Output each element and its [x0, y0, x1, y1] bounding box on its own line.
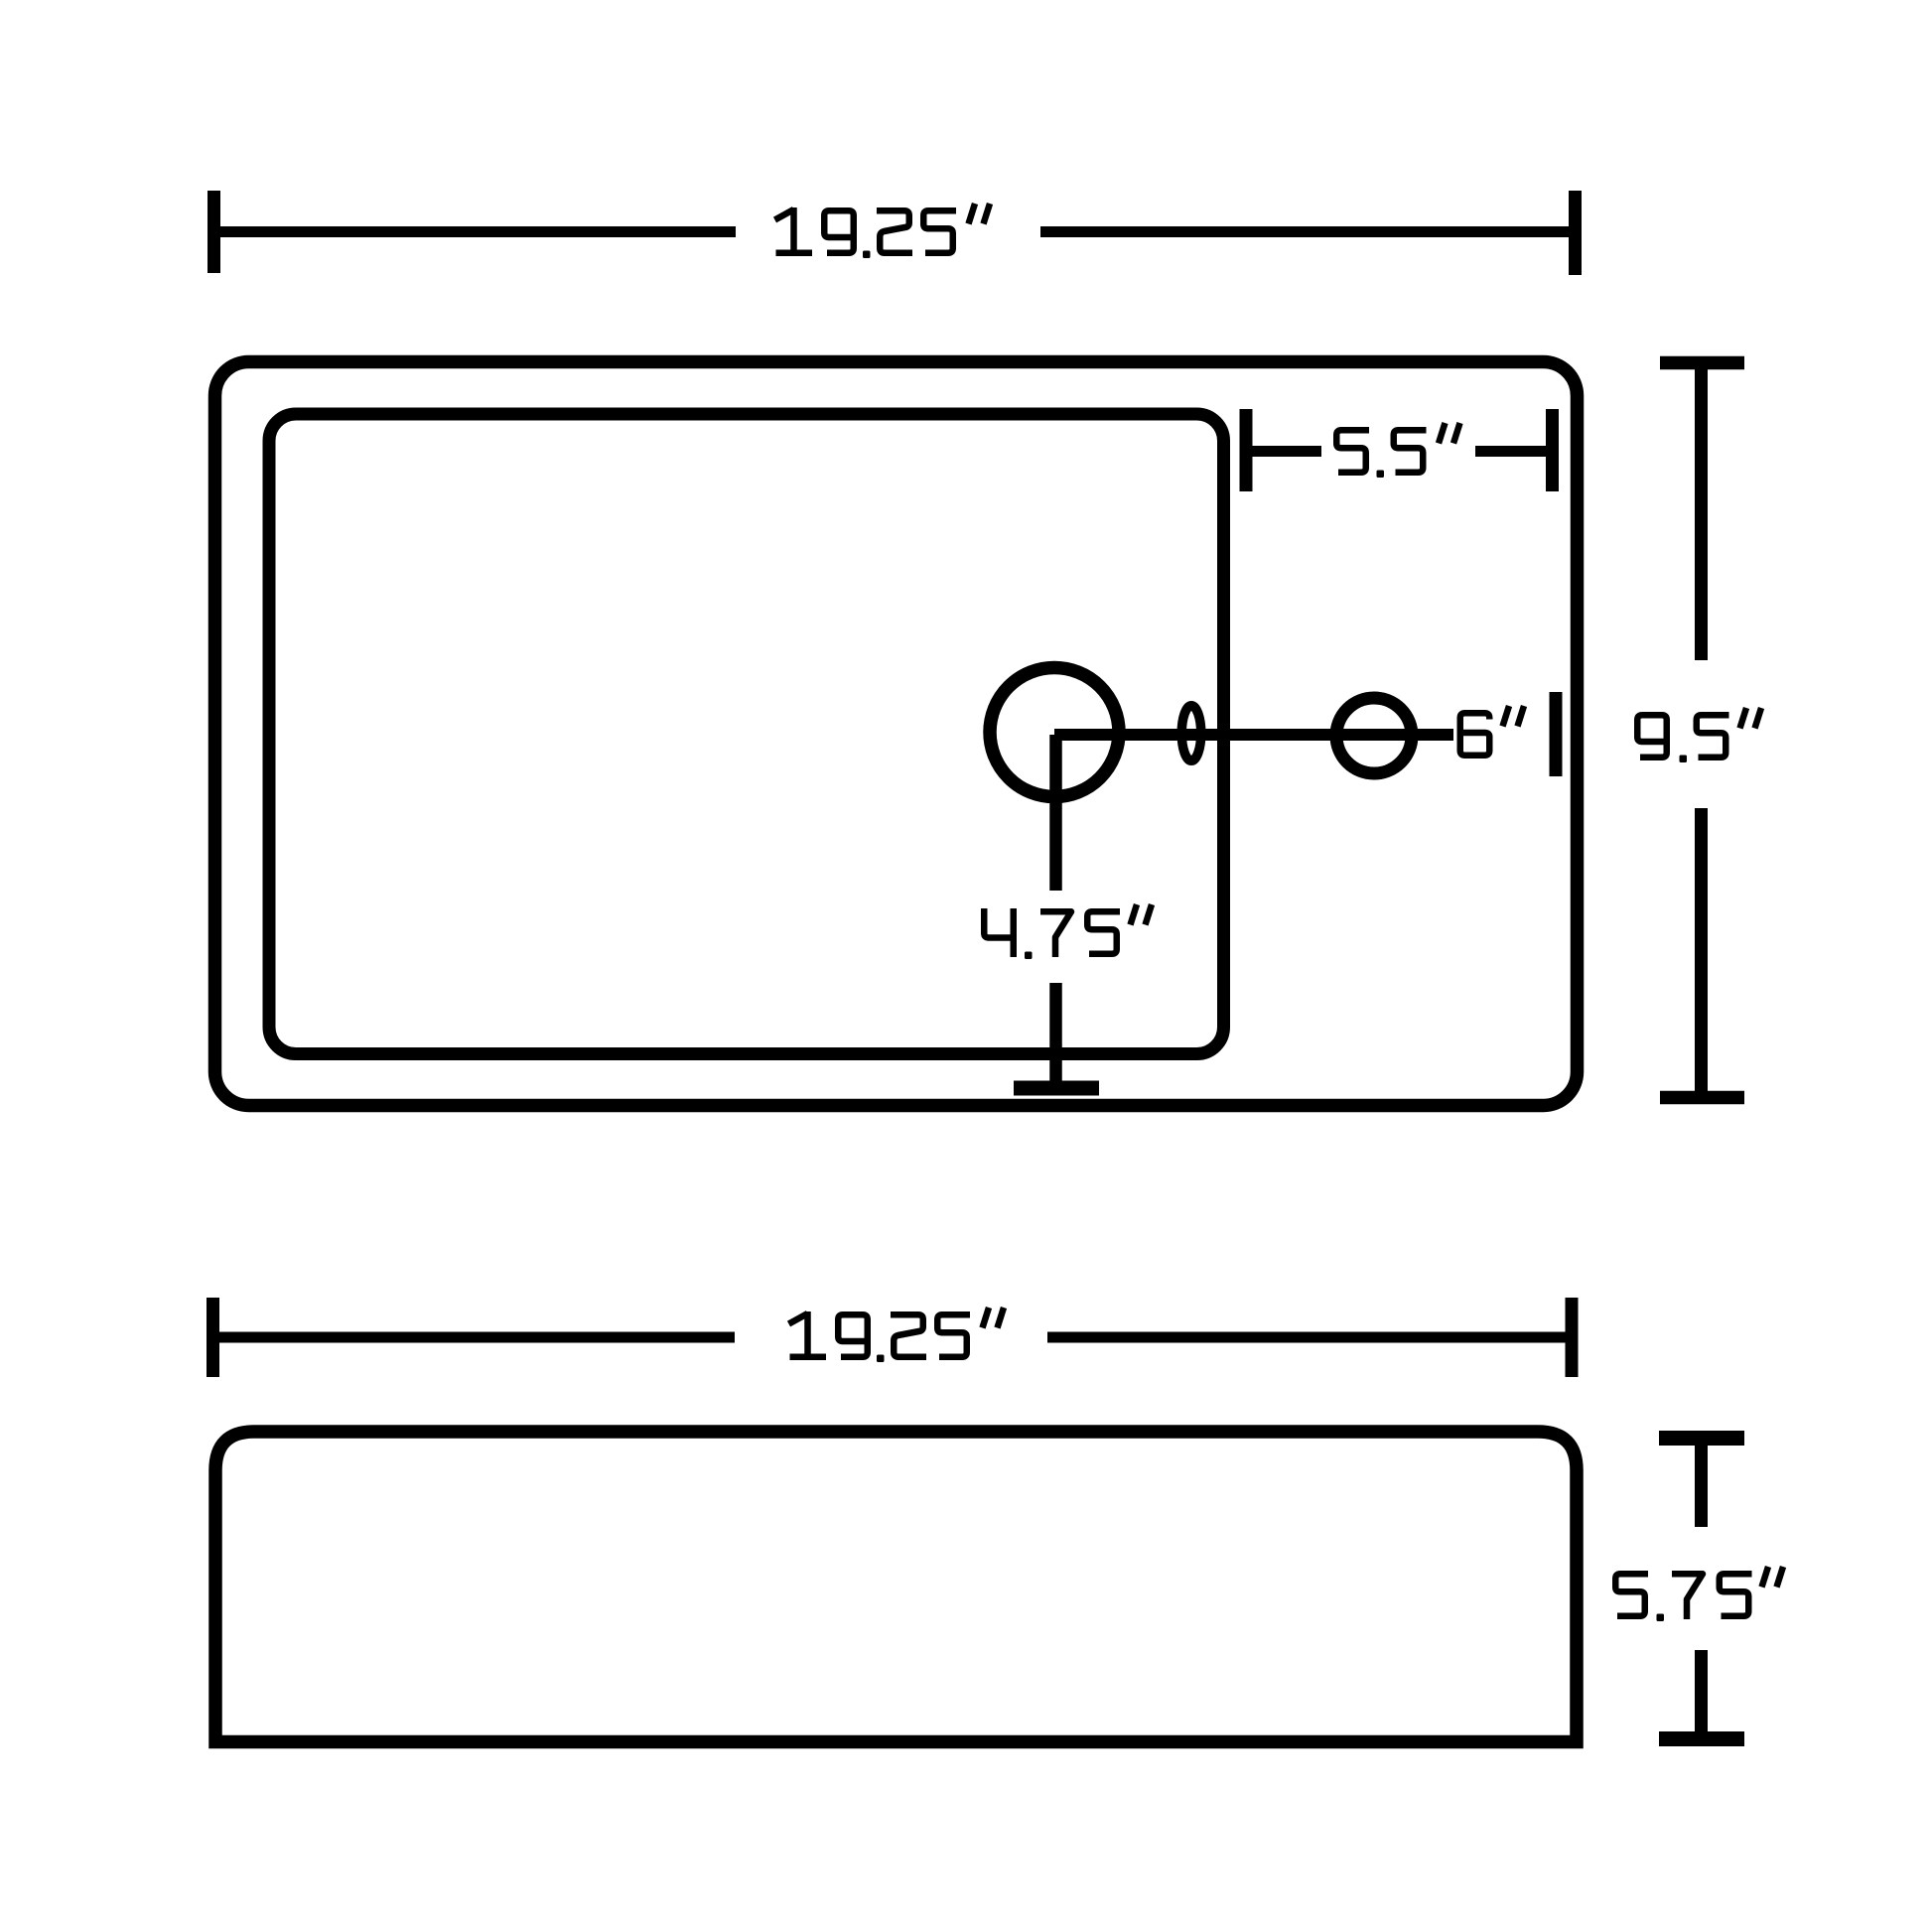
secondary faucet hole (small circle)	[1336, 698, 1412, 773]
dimension 5.5in: right line segment	[1475, 446, 1546, 457]
dimension 19.25in bottom: left line segment	[219, 1332, 735, 1343]
dimension 6in: line from faucet centre	[1054, 729, 1453, 741]
dimension 5.75in: lower vertical segment	[1695, 1650, 1708, 1731]
dimension 19.25in bottom: left tick	[207, 1298, 219, 1377]
top view: basin inner rim	[269, 414, 1224, 1054]
overflow hole (small ellipse)	[1181, 706, 1201, 761]
dimension 5.5in: label text	[1336, 423, 1459, 478]
dimension 9.5in: top tick	[1660, 356, 1744, 370]
dimension 5.5in: left tick	[1240, 409, 1253, 491]
dimension 19.25in top: left line segment	[220, 226, 736, 237]
dimension 19.25in top: right line segment	[1040, 226, 1569, 237]
dimension 19.25in bottom: label text	[789, 1308, 1005, 1362]
dimension 5.75in: bottom tick	[1659, 1731, 1744, 1746]
dimension 9.5in: lower line segment	[1695, 808, 1708, 1091]
dimension 19.25in top: right tick	[1569, 191, 1582, 275]
dimension 5.5in: right tick	[1546, 409, 1559, 491]
dimension 5.75in: upper vertical segment	[1695, 1446, 1708, 1527]
dimension 4.75in: lower vertical segment	[1049, 983, 1062, 1088]
dimension 5.75in: top tick	[1659, 1431, 1744, 1446]
dimension 19.25in top: left tick	[207, 191, 220, 273]
dimension 19.25in top: label text	[775, 204, 991, 258]
dimension 9.5in: label text	[1637, 708, 1761, 762]
dimension 4.75in: label text	[984, 904, 1152, 959]
dimension 6in: label text	[1460, 706, 1524, 756]
front view: sink body outline	[215, 1432, 1577, 1742]
dimension 9.5in: bottom tick	[1660, 1091, 1744, 1105]
dimension 19.25in bottom: right tick	[1566, 1298, 1579, 1377]
dimension 6in: right tick	[1550, 692, 1563, 776]
faucet hole (large circle)	[990, 668, 1119, 797]
dimension 9.5in: upper line segment	[1695, 369, 1708, 660]
dimension 4.75in: upper vertical segment	[1049, 735, 1062, 891]
dimension 5.5in: left line segment	[1252, 446, 1321, 457]
dimension 4.75in: bottom tick bar	[1014, 1081, 1099, 1096]
dimension 5.75in: label text	[1615, 1567, 1783, 1621]
top view: sink outer rim	[215, 362, 1578, 1106]
dimension 19.25in bottom: right line segment	[1047, 1332, 1566, 1343]
